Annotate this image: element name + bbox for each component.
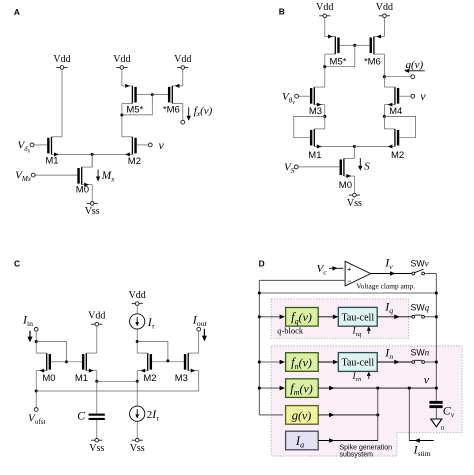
svg-text:Tau-cell: Tau-cell [341,358,374,369]
svg-text:Vdd: Vdd [376,2,393,13]
svg-text:Vdd: Vdd [53,54,70,65]
svg-text:B: B [279,7,285,17]
svg-text:fx(v): fx(v) [194,105,213,118]
svg-text:M1: M1 [308,150,321,161]
svg-text:S: S [364,160,370,172]
svg-text:fm(v): fm(v) [290,382,313,398]
svg-text:fq(v): fq(v) [291,310,312,326]
svg-text:Spike generation: Spike generation [340,444,393,451]
svg-text:Vss: Vss [347,198,362,209]
svg-text:subsystem: subsystem [340,451,374,458]
svg-text:SWn: SWn [411,348,430,358]
svg-text:g(v): g(v) [292,408,312,422]
svg-text:Vss: Vss [89,443,104,454]
svg-text:M3: M3 [309,106,322,117]
svg-text:M0: M0 [76,185,89,196]
svg-text:M3: M3 [175,373,188,384]
svg-text:SWq: SWq [411,302,430,312]
svg-text:M5*: M5* [330,56,347,67]
svg-text:M2: M2 [128,156,141,167]
svg-text:Tau-cell: Tau-cell [341,312,374,323]
svg-text:v: v [159,138,165,152]
svg-text:Vdd: Vdd [88,311,105,322]
svg-text:D: D [259,259,265,269]
svg-text:Vdd: Vdd [174,54,191,65]
svg-text:M5*: M5* [126,105,143,116]
svg-text:−: − [347,276,352,285]
svg-text:M4: M4 [389,106,402,117]
svg-text:M2: M2 [391,150,404,161]
svg-text:v: v [424,373,430,387]
svg-text:M2: M2 [143,373,156,384]
svg-text:0: 0 [441,425,444,432]
svg-text:Voltage clamp amp.: Voltage clamp amp. [356,281,415,290]
svg-text:Vdd: Vdd [316,2,333,13]
svg-text:M0: M0 [42,373,55,384]
svg-text:+: + [347,264,352,273]
svg-text:SWv: SWv [411,259,429,269]
svg-text:M1: M1 [45,156,58,167]
svg-text:Vdd: Vdd [129,290,146,301]
svg-text:fn(v): fn(v) [291,355,312,371]
svg-text:*M6: *M6 [163,105,180,116]
svg-text:Vss: Vss [85,206,100,217]
svg-text:M0: M0 [339,180,352,191]
svg-text:v: v [420,89,426,103]
svg-text:C: C [77,409,86,423]
svg-text:C: C [14,258,20,268]
svg-text:A: A [14,7,20,17]
svg-text:*M6: *M6 [364,56,381,67]
svg-text:M1: M1 [75,373,88,384]
svg-text:q-block: q-block [277,325,304,335]
svg-text:Vss: Vss [130,443,145,454]
svg-text:Vdd: Vdd [113,54,130,65]
